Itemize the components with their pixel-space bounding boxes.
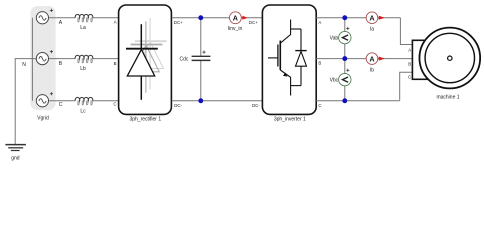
svg-text:C: C	[318, 103, 321, 108]
svg-text:B: B	[114, 61, 117, 66]
svg-text:DC-: DC-	[252, 103, 260, 108]
svg-text:Vbc: Vbc	[330, 78, 339, 84]
ammeter Iinv_in	[230, 12, 242, 24]
wire voltmeter Vab branch	[344, 18, 346, 59]
wire neutral bus	[31, 18, 33, 101]
svg-text:A: A	[408, 48, 411, 53]
wire phase C inverter to corner	[316, 100, 400, 102]
svg-text:C: C	[59, 102, 63, 108]
machine M1 stator	[419, 28, 480, 89]
ammeter Ia	[366, 12, 378, 24]
voltage source Vc	[36, 92, 53, 107]
svg-text:B: B	[318, 61, 321, 66]
diode ghost 2	[135, 18, 167, 90]
svg-text:Iinv_in: Iinv_in	[228, 26, 243, 32]
wire source B to inductor Lb	[36, 58, 75, 60]
machine terminal box	[412, 40, 427, 79]
inductor Lc	[75, 97, 93, 105]
svg-text:C: C	[113, 102, 116, 107]
svg-text:La: La	[80, 25, 86, 31]
svg-text:Vgrid: Vgrid	[37, 116, 49, 122]
svg-text:3ph_inverter 1: 3ph_inverter 1	[274, 117, 306, 123]
machine M1 rotor	[425, 33, 474, 82]
svg-text:A: A	[369, 13, 374, 22]
svg-text:DC+: DC+	[174, 20, 183, 25]
svg-text:Ib: Ib	[370, 68, 374, 74]
freewheel diode D2	[291, 29, 307, 86]
IGBT Q1	[268, 20, 291, 96]
subsystem group box Vgrid	[30, 6, 55, 110]
wire capacitor branch top	[200, 18, 202, 56]
capacitor Cdc	[192, 51, 211, 61]
svg-text:Cdc: Cdc	[179, 56, 188, 62]
wire phase B inverter to machine	[316, 58, 412, 60]
svg-text:Lc: Lc	[80, 109, 86, 115]
wire phase A drop to machine	[400, 18, 412, 45]
inductor La	[75, 14, 93, 22]
wire phase C rise to machine	[400, 72, 413, 100]
ground	[5, 145, 26, 151]
wire N exit	[15, 59, 36, 145]
svg-text:machine 1: machine 1	[436, 95, 459, 101]
wire capacitor branch bottom	[200, 61, 202, 101]
machine M1 shaft	[448, 56, 452, 60]
arrow current direction Ib	[379, 57, 385, 61]
wire Lb to rectifier B	[93, 58, 119, 60]
svg-text:A: A	[114, 19, 117, 24]
ammeter Ib	[366, 53, 378, 65]
arrow current direction DC link	[242, 16, 247, 20]
svg-text:N: N	[22, 62, 26, 68]
node phase C junction	[342, 98, 347, 103]
wire DC+ rail	[172, 17, 262, 19]
svg-text:B: B	[408, 61, 411, 66]
node DC+ junction	[198, 15, 203, 20]
svg-text:A: A	[233, 13, 238, 22]
inductor Lb	[75, 55, 93, 63]
wire Lc to rectifier C	[93, 100, 119, 102]
wire source C to inductor Lc	[36, 100, 75, 102]
svg-text:C: C	[408, 75, 411, 80]
arrow current direction Ia	[379, 16, 385, 20]
node phase A junction	[342, 15, 347, 20]
diode D1 main	[126, 24, 158, 100]
wire La to rectifier A	[93, 17, 119, 19]
svg-text:DC+: DC+	[249, 20, 258, 25]
voltmeter Vbc	[339, 69, 351, 86]
svg-text:3ph_rectifier 1: 3ph_rectifier 1	[129, 117, 161, 123]
rectifier U1 block	[119, 5, 172, 114]
svg-text:A: A	[318, 20, 321, 25]
svg-text:DC-: DC-	[174, 103, 182, 108]
svg-text:A: A	[369, 54, 374, 63]
inverter U2 block	[262, 5, 316, 114]
wire DC- rail	[172, 100, 262, 102]
svg-text:gnd: gnd	[11, 156, 20, 162]
voltage source Va	[36, 9, 53, 24]
node phase B junction	[342, 56, 347, 61]
wire voltmeter Vbc branch	[344, 59, 346, 101]
svg-text:Ia: Ia	[370, 27, 374, 33]
svg-text:Vab: Vab	[330, 36, 339, 42]
svg-text:Lb: Lb	[80, 66, 86, 72]
node DC- junction	[198, 98, 203, 103]
wire source A to inductor La	[36, 17, 75, 19]
voltmeter Vab	[339, 27, 351, 44]
wire phase A inverter to corner	[316, 17, 400, 19]
diode ghost 1	[131, 21, 163, 93]
voltage source Vb	[36, 50, 53, 65]
